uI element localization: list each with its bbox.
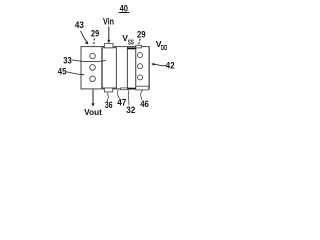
arrow 42 <box>154 65 166 66</box>
svg-text:29: 29 <box>137 29 146 40</box>
dashed leader 29 left <box>93 39 94 54</box>
thick electrode bar bottom <box>127 88 135 90</box>
via circle left-bottom <box>90 76 96 82</box>
svg-text:46: 46 <box>140 99 149 110</box>
svg-text:47: 47 <box>117 98 126 109</box>
via circle 29 left-top <box>90 53 96 59</box>
via circle 29 right-top <box>138 53 143 58</box>
arrow Vin <box>108 27 110 41</box>
svg-text:SS: SS <box>128 39 134 46</box>
leader 45 <box>66 72 84 75</box>
svg-text:DD: DD <box>161 45 167 52</box>
arrow Vout <box>92 90 94 104</box>
leader 36 <box>107 93 108 102</box>
divider line 32/46 <box>135 47 137 89</box>
outer package box 41 <box>81 47 149 89</box>
svg-text:29: 29 <box>91 28 99 39</box>
top-right terminal tab <box>136 45 142 48</box>
svg-text:43: 43 <box>75 20 84 31</box>
svg-text:36: 36 <box>105 100 113 111</box>
svg-text:Vin: Vin <box>103 16 114 26</box>
svg-text:33: 33 <box>63 56 71 67</box>
top terminal tab 29 (on center bar) <box>104 44 113 48</box>
arrow 43 <box>81 31 87 42</box>
bottom small tab left of 32 <box>121 88 128 90</box>
dashed leader 29 right <box>138 39 140 53</box>
leader 46 <box>140 90 142 100</box>
svg-text:45: 45 <box>58 66 67 77</box>
inner electrode rect 33 (center bar) <box>102 48 116 88</box>
svg-text:Vout: Vout <box>84 107 102 117</box>
bottom terminal tab 36 <box>104 88 112 92</box>
svg-text:32: 32 <box>126 105 135 116</box>
via circle right-bottom <box>138 75 143 80</box>
via circle right-middle <box>138 64 143 69</box>
underline of 40 <box>119 12 130 14</box>
leader 47 <box>117 90 119 99</box>
svg-text:40: 40 <box>120 3 128 13</box>
thick electrode bar top (Vss) <box>127 48 135 50</box>
svg-text:42: 42 <box>166 61 175 72</box>
leader 33 <box>72 60 107 62</box>
leader 32 <box>127 90 130 105</box>
bottom-right terminal tab 46 <box>136 86 149 90</box>
divider line 47/32 <box>126 47 128 89</box>
via circle left-middle <box>90 65 96 71</box>
